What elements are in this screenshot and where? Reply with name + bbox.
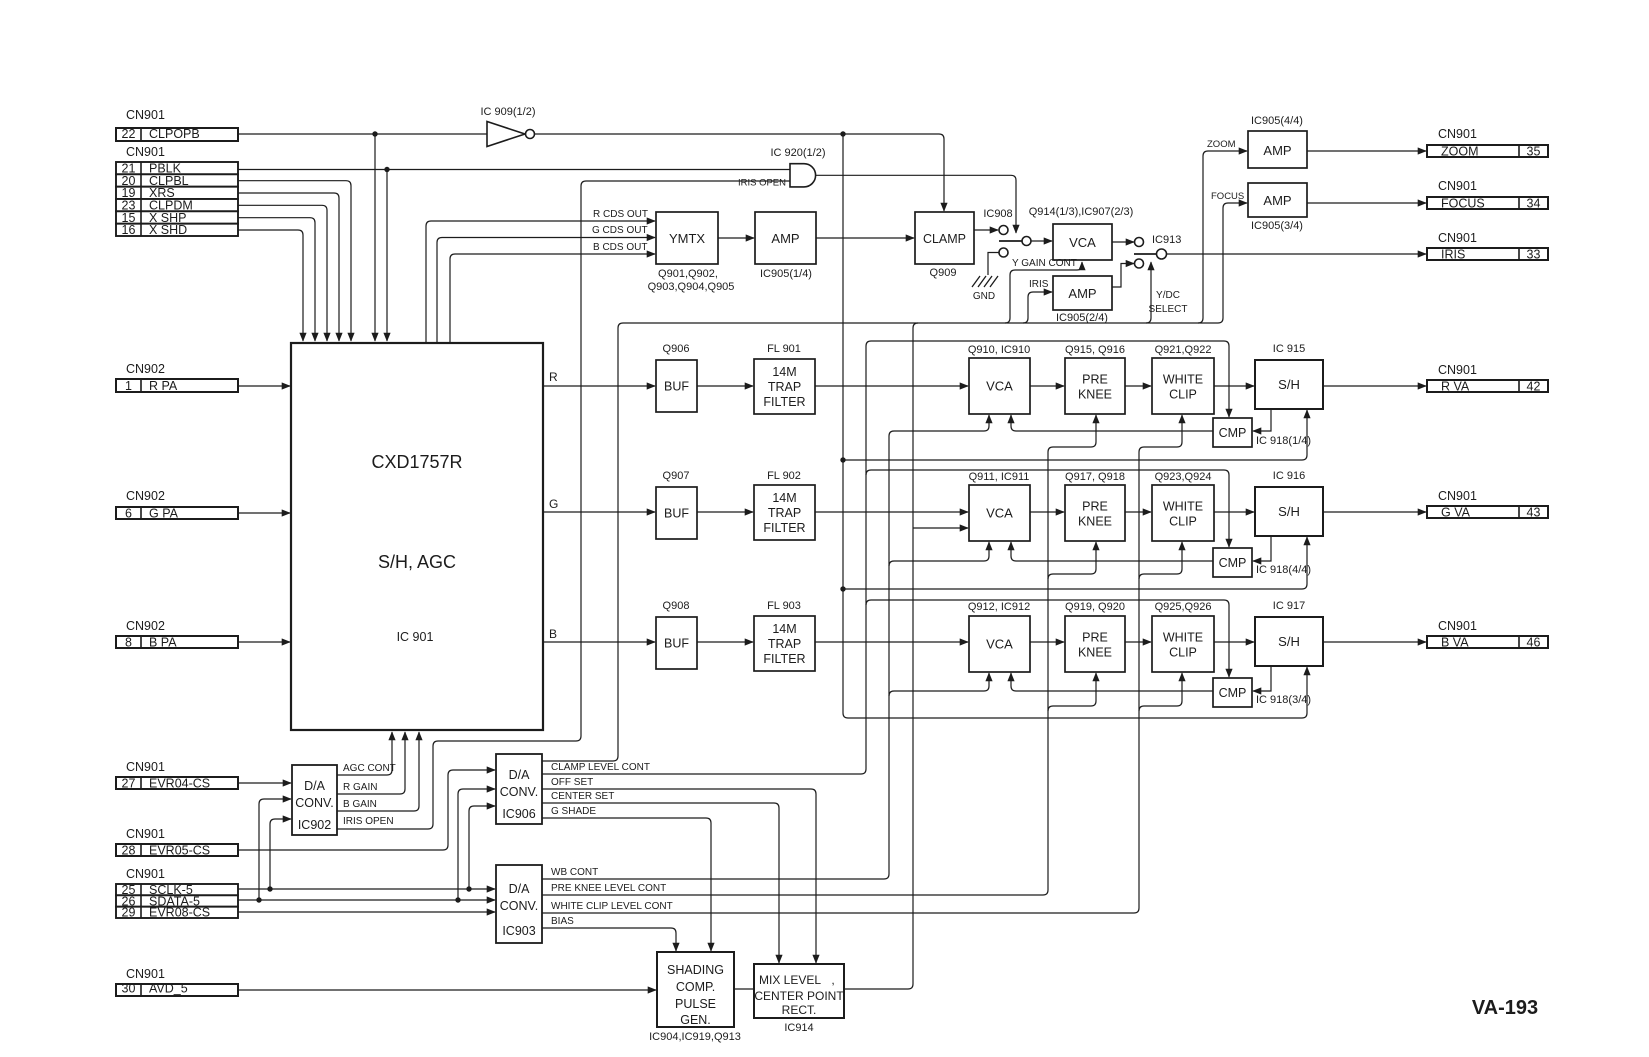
svg-text:D/A: D/A xyxy=(509,768,531,782)
wire IRIS OPEN to AND gate xyxy=(337,181,790,829)
svg-text:B GAIN: B GAIN xyxy=(343,799,377,810)
svg-text:AMP: AMP xyxy=(771,231,799,246)
svg-text:VCA: VCA xyxy=(986,379,1013,394)
junction SDATA tap for IC906 xyxy=(455,897,460,902)
svg-text:Q906: Q906 xyxy=(663,343,690,355)
block WHITE CLIP Q925,Q926 (B row) xyxy=(1152,616,1214,672)
svg-text:FL 902: FL 902 xyxy=(767,470,801,482)
block SHADING COMP. PULSE GEN. IC904,IC919,Q913 xyxy=(657,952,734,1027)
svg-text:G: G xyxy=(549,497,558,511)
wire CLPOPB rail to S/H (G) xyxy=(843,537,1307,589)
wire CN902 G PA into IC901 xyxy=(238,512,290,514)
svg-text:Q919, Q920: Q919, Q920 xyxy=(1065,601,1125,613)
svg-text:CLAMP LEVEL CONT: CLAMP LEVEL CONT xyxy=(551,762,650,773)
svg-text:SHADING: SHADING xyxy=(667,963,724,977)
wire IRIS net from IC906 up-right to AMP riser xyxy=(542,203,1247,761)
svg-text:AMP: AMP xyxy=(1263,193,1291,208)
svg-text:BIAS: BIAS xyxy=(551,916,574,927)
VCA U914/U907 (Y) xyxy=(1053,224,1112,260)
svg-text:GEN.: GEN. xyxy=(680,1013,711,1027)
svg-text:CONV.: CONV. xyxy=(500,785,538,799)
junction SDATA tap for IC902 xyxy=(256,897,261,902)
wire IC901 B out to BUF xyxy=(543,641,655,643)
svg-text:WHITE: WHITE xyxy=(1163,631,1203,645)
IC U901 CXD1757R S/H AGC main block xyxy=(291,343,543,730)
svg-text:Q903,Q904,Q905: Q903,Q904,Q905 xyxy=(648,281,735,293)
svg-text:R VA: R VA xyxy=(1441,379,1470,393)
wire CMP output to VCA (B) xyxy=(1011,673,1213,691)
svg-text:G SHADE: G SHADE xyxy=(551,806,596,817)
svg-text:CN901: CN901 xyxy=(1438,489,1477,503)
comparator CMP IC 918(1/4) (R row) xyxy=(1213,418,1252,447)
svg-text:TRAP: TRAP xyxy=(768,380,801,394)
wire AMP IC905(2/4) out to IC913 throw2 xyxy=(1112,264,1134,288)
svg-text:28: 28 xyxy=(122,843,136,857)
wire PRE KNEE LEVEL CONT branch (G) xyxy=(1048,542,1096,579)
svg-text:27: 27 xyxy=(122,776,136,790)
svg-text:IC 917: IC 917 xyxy=(1273,600,1305,612)
svg-text:KNEE: KNEE xyxy=(1078,388,1112,402)
wire WB CONT riser xyxy=(542,436,889,879)
svg-text:IC 918(3/4): IC 918(3/4) xyxy=(1256,694,1311,706)
wire SCLK branch into IC906 xyxy=(469,806,495,889)
svg-text:S/H: S/H xyxy=(1278,634,1300,649)
svg-text:VCA: VCA xyxy=(986,637,1013,652)
connector CN901 pins 25,26,29 box xyxy=(116,884,238,895)
wire WB CONT branch to VCA (B) xyxy=(889,673,989,696)
svg-text:CONV.: CONV. xyxy=(500,899,538,913)
svg-text:CN902: CN902 xyxy=(126,489,165,503)
svg-text:14M: 14M xyxy=(772,491,796,505)
svg-text:IC903: IC903 xyxy=(502,924,535,938)
svg-text:FL 901: FL 901 xyxy=(767,343,801,355)
wire CENTER SET into MIX block xyxy=(542,803,779,963)
wire inverter out to CLAMP top xyxy=(535,134,945,211)
wire AVD_5 into SHADING block xyxy=(238,989,656,991)
svg-text:CMP: CMP xyxy=(1219,426,1247,440)
svg-text:CN901: CN901 xyxy=(126,145,165,159)
DAC U906 D/A CONV. IC906 xyxy=(496,754,542,824)
svg-text:IC 901: IC 901 xyxy=(397,630,434,644)
svg-text:14M: 14M xyxy=(772,365,796,379)
svg-text:S/H: S/H xyxy=(1278,377,1300,392)
wire SDATA-5 into IC903 xyxy=(238,899,495,901)
wire WHITE CLIP LEVEL CONT branch (R) xyxy=(1139,415,1182,452)
svg-text:CN901: CN901 xyxy=(1438,127,1477,141)
svg-text:IC908: IC908 xyxy=(983,208,1012,220)
amplifier U905b AMP IC905(2/4) xyxy=(1053,276,1112,310)
svg-text:Q908: Q908 xyxy=(663,600,690,612)
wire VCA to IC913 throw1 xyxy=(1112,241,1134,243)
svg-text:FL 903: FL 903 xyxy=(767,600,801,612)
wire CLAMP LEVEL CONT to CMP top (R) xyxy=(866,341,1229,417)
VCA Q910, IC910 (R row) xyxy=(969,358,1030,414)
wire Y GAIN CONT riser into VCA xyxy=(1005,262,1082,323)
connector CN901 pin 35 ZOOM box xyxy=(1427,145,1548,157)
svg-text:CN901: CN901 xyxy=(1438,619,1477,633)
wire WB CONT branch to VCA (R) xyxy=(889,415,989,436)
wire EVR04-CS into IC902 xyxy=(238,782,291,784)
svg-text:FOCUS: FOCUS xyxy=(1441,196,1485,210)
svg-text:AMP: AMP xyxy=(1263,143,1291,158)
svg-text:D/A: D/A xyxy=(509,882,531,896)
svg-text:KNEE: KNEE xyxy=(1078,646,1112,660)
svg-text:WHITE: WHITE xyxy=(1163,500,1203,514)
svg-text:ZOOM: ZOOM xyxy=(1441,144,1479,158)
svg-text:CN902: CN902 xyxy=(126,362,165,376)
wire CLPOPB rail to S/H (R) xyxy=(843,410,1307,460)
connector CN901 pin 42 R VA box xyxy=(1427,380,1548,392)
wire MIX LEVEL output rail xyxy=(844,323,918,989)
svg-text:PULSE: PULSE xyxy=(675,997,716,1011)
svg-text:22: 22 xyxy=(122,127,136,141)
filter FL 902 14M trap filter (G row) xyxy=(754,485,815,540)
svg-text:IC 916: IC 916 xyxy=(1273,470,1305,482)
svg-text:Q923,Q924: Q923,Q924 xyxy=(1155,471,1212,483)
wire CLAMP LEVEL CONT to CMP top (G) xyxy=(866,470,1229,547)
svg-text:IC 915: IC 915 xyxy=(1273,343,1305,355)
svg-text:PRE KNEE LEVEL CONT: PRE KNEE LEVEL CONT xyxy=(551,883,666,894)
wire WB CONT branch to VCA (G) xyxy=(889,542,989,566)
buffer Q907 BUF (G row) xyxy=(656,487,697,539)
svg-text:G VA: G VA xyxy=(1441,505,1471,519)
wire CLAMP LEVEL CONT riser xyxy=(542,346,866,774)
svg-text:R: R xyxy=(549,370,558,384)
svg-text:BUF: BUF xyxy=(664,637,689,651)
wire EVR05-CS into IC906 xyxy=(238,770,495,850)
block PRE KNEE Q915, Q916 (R row) xyxy=(1065,358,1125,414)
svg-text:CN901: CN901 xyxy=(126,108,165,122)
block S/H IC 916 (G row) xyxy=(1255,487,1323,536)
wire IRIS riser into AMP IC905(2/4) xyxy=(1023,292,1052,323)
connector CN901 pin 46 B VA box xyxy=(1427,636,1548,648)
svg-text:MIX LEVEL: MIX LEVEL xyxy=(759,973,821,987)
svg-text:CN901: CN901 xyxy=(126,867,165,881)
svg-text:COMP.: COMP. xyxy=(676,980,715,994)
junction SCLK tap for IC906 xyxy=(466,886,471,891)
connector CN901 pin 34 FOCUS box xyxy=(1427,197,1548,209)
wire S/H to CN901 B VA out xyxy=(1323,641,1426,643)
wire trap filter to VCA (R) xyxy=(815,385,968,387)
wire OFF SET into MIX block xyxy=(542,789,816,963)
svg-text:R GAIN: R GAIN xyxy=(343,782,377,793)
DAC U902 D/A CONV. IC902 xyxy=(292,765,337,835)
svg-text:R PA: R PA xyxy=(149,379,178,393)
wire PRE KNEE to WHITE CLIP (G) xyxy=(1125,511,1151,513)
wire PRE KNEE to WHITE CLIP (B) xyxy=(1125,641,1151,643)
svg-text:CN902: CN902 xyxy=(126,619,165,633)
svg-text:IRIS OPEN: IRIS OPEN xyxy=(738,178,786,189)
ground GND symbol xyxy=(972,276,998,287)
wire CMP output to VCA (R) xyxy=(1011,415,1213,431)
svg-text:IRIS OPEN: IRIS OPEN xyxy=(343,816,394,827)
block PRE KNEE Q919, Q920 (B row) xyxy=(1065,616,1125,672)
svg-text:IC905(2/4): IC905(2/4) xyxy=(1056,312,1108,324)
wire S/H feedback to CMP (B) xyxy=(1253,666,1271,691)
svg-text:CN901: CN901 xyxy=(1438,179,1477,193)
svg-text:29: 29 xyxy=(122,906,136,920)
wire CLAMP out to IC908 throw1 xyxy=(974,229,998,231)
connector CN902 pin 8 B PA box xyxy=(116,636,238,648)
svg-text:1: 1 xyxy=(125,379,132,393)
svg-text:TRAP: TRAP xyxy=(768,506,801,520)
svg-text:35: 35 xyxy=(1527,144,1541,158)
block MIX LEVEL CENTER POINT RECT. IC914 xyxy=(754,964,844,1018)
svg-text:FILTER: FILTER xyxy=(763,652,805,666)
wire SDATA branch into IC902 xyxy=(259,799,291,900)
block CLAMP Q909 xyxy=(915,212,974,264)
wire S/H to CN901 R VA out xyxy=(1323,385,1426,387)
junction CLPOPB rail (G) xyxy=(840,586,845,591)
wire VCA to PRE KNEE (B) xyxy=(1030,641,1064,643)
svg-text:IC905(4/4): IC905(4/4) xyxy=(1251,115,1303,127)
wire AGC CONT into IC901 xyxy=(337,732,392,775)
svg-text:42: 42 xyxy=(1527,379,1541,393)
svg-text:FOCUS: FOCUS xyxy=(1211,191,1244,202)
svg-text:OFF SET: OFF SET xyxy=(551,777,593,788)
wire B CDS OUT to YMTX xyxy=(450,254,655,343)
svg-text:IC905(3/4): IC905(3/4) xyxy=(1251,220,1303,232)
svg-text:RECT.: RECT. xyxy=(782,1003,817,1017)
svg-text:IC902: IC902 xyxy=(298,818,331,832)
wire PBLK drop into IC901 xyxy=(386,170,388,342)
svg-text:IC904,IC919,Q913: IC904,IC919,Q913 xyxy=(649,1031,741,1043)
junction PBLK drop xyxy=(384,167,389,172)
connector CN902 pin 6 G PA box xyxy=(116,507,238,519)
wire AMP focus to CN901 FOCUS xyxy=(1307,202,1426,204)
connector CN901 pin 30 AVD_5 box xyxy=(116,984,238,996)
svg-text:YMTX: YMTX xyxy=(669,231,705,246)
svg-text:CN901: CN901 xyxy=(1438,231,1477,245)
svg-text:FILTER: FILTER xyxy=(763,395,805,409)
block YMTX Q901-Q905 xyxy=(656,212,718,264)
svg-text:IC 918(1/4): IC 918(1/4) xyxy=(1256,435,1311,447)
wire WHITE CLIP to S/H (G) xyxy=(1214,511,1254,513)
svg-text:IC 918(4/4): IC 918(4/4) xyxy=(1256,564,1311,576)
svg-text:Y GAIN CONT: Y GAIN CONT xyxy=(1012,258,1077,269)
svg-text:34: 34 xyxy=(1527,196,1541,210)
connector CN901 pin 33 IRIS box xyxy=(1427,248,1548,260)
wire S/H to CN901 G VA out xyxy=(1323,511,1426,513)
svg-text:AVD_5: AVD_5 xyxy=(149,982,188,996)
junction SCLK tap for IC902 xyxy=(267,886,272,891)
block WHITE CLIP Q921,Q922 (R row) xyxy=(1152,358,1214,414)
wire CLAMP LEVEL CONT to CMP top (B) xyxy=(866,600,1229,677)
svg-text:Q915, Q916: Q915, Q916 xyxy=(1065,344,1125,356)
svg-text:33: 33 xyxy=(1527,247,1541,261)
comparator CMP IC 918(4/4) (G row) xyxy=(1213,548,1252,577)
svg-text:46: 46 xyxy=(1527,635,1541,649)
svg-text:6: 6 xyxy=(125,506,132,520)
svg-text:CLAMP: CLAMP xyxy=(923,232,966,246)
block S/H IC 915 (R row) xyxy=(1255,360,1323,409)
wire XRS into IC901 xyxy=(238,193,339,341)
junction CLPOPB rail (R) xyxy=(840,457,845,462)
wire CN902 B PA into IC901 xyxy=(238,641,290,643)
svg-text:EVR05-CS: EVR05-CS xyxy=(149,843,210,857)
svg-text:BUF: BUF xyxy=(664,380,689,394)
wire BUF to 14M trap (B) xyxy=(697,641,753,643)
wire EVR08-CS into IC903 xyxy=(238,911,495,913)
svg-text:G PA: G PA xyxy=(149,506,179,520)
wire IC908 throw2 to ground xyxy=(988,253,999,276)
svg-text:B PA: B PA xyxy=(149,635,177,649)
svg-text:CMP: CMP xyxy=(1219,556,1247,570)
wire B GAIN into IC901 xyxy=(337,732,419,811)
filter FL 901 14M trap filter (R row) xyxy=(754,359,815,414)
svg-text:EVR04-CS: EVR04-CS xyxy=(149,776,210,790)
wire WHITE CLIP LEVEL CONT branch (G) xyxy=(1139,542,1182,579)
connector CN901 pin 43 G VA box xyxy=(1427,506,1548,518)
connector CN902 pin 1 R PA box xyxy=(116,379,238,392)
svg-text:14M: 14M xyxy=(772,622,796,636)
wire CLPDM into IC901 xyxy=(238,205,327,341)
wire CLPOPB from CN901 to inverter xyxy=(238,133,487,135)
svg-text:CN901: CN901 xyxy=(1438,363,1477,377)
wire BUF to 14M trap (R) xyxy=(697,385,753,387)
junction CLPOPB drop xyxy=(372,131,377,136)
svg-text:Q912, IC912: Q912, IC912 xyxy=(968,601,1030,613)
wire SCLK branch into IC902 xyxy=(270,819,291,889)
wire WHITE CLIP LEVEL CONT riser xyxy=(542,452,1139,913)
AND gate U920 IC 920(1/2) xyxy=(790,164,816,187)
svg-text:SELECT: SELECT xyxy=(1149,304,1188,315)
svg-text:Q921,Q922: Q921,Q922 xyxy=(1155,344,1212,356)
DAC U903 D/A CONV. IC903 xyxy=(496,865,542,943)
wire Y/DC SELECT riser xyxy=(1146,262,1151,323)
svg-text:CLPOPB: CLPOPB xyxy=(149,127,200,141)
svg-text:B VA: B VA xyxy=(1441,635,1469,649)
svg-text:GND: GND xyxy=(973,291,995,302)
svg-text:AGC CONT: AGC CONT xyxy=(343,763,396,774)
wire G SHADE into SHADING block xyxy=(542,818,711,951)
filter FL 903 14M trap filter (B row) xyxy=(754,616,815,671)
svg-text:IC914: IC914 xyxy=(784,1022,813,1034)
wire PBLK to AND gate xyxy=(238,169,790,171)
wire S/H feedback to CMP (G) xyxy=(1253,536,1271,561)
svg-text:CN901: CN901 xyxy=(126,760,165,774)
wire IC901 R out to BUF xyxy=(543,385,655,387)
wire X SHP into IC901 xyxy=(238,218,315,341)
block S/H IC 917 (B row) xyxy=(1255,617,1323,666)
block WHITE CLIP Q923,Q924 (G row) xyxy=(1152,485,1214,541)
svg-text:CENTER SET: CENTER SET xyxy=(551,791,614,802)
svg-text:Q901,Q902,: Q901,Q902, xyxy=(658,268,718,280)
svg-text:D/A: D/A xyxy=(304,779,326,793)
wire SCLK-5 into IC903 xyxy=(238,888,495,890)
svg-text:S/H: S/H xyxy=(1278,504,1300,519)
wire CLPOPB vertical rail xyxy=(842,134,844,713)
svg-text:KNEE: KNEE xyxy=(1078,515,1112,529)
wire YMTX to AMP xyxy=(718,237,754,239)
wire CLPOPB drop into IC901 xyxy=(374,134,376,341)
wire CLPOPB rail corner to S/H (B) xyxy=(843,667,1307,718)
wire trap filter to VCA (G) xyxy=(815,511,968,513)
wire VCA to PRE KNEE (G) xyxy=(1030,511,1064,513)
svg-text:CN901: CN901 xyxy=(126,827,165,841)
svg-text:FILTER: FILTER xyxy=(763,521,805,535)
svg-text:X SHD: X SHD xyxy=(149,223,187,237)
buffer Q908 BUF (B row) xyxy=(656,617,697,669)
wire WHITE CLIP LEVEL CONT branch (B) xyxy=(1139,673,1182,711)
svg-text:16: 16 xyxy=(122,223,136,237)
svg-text:Y/DC: Y/DC xyxy=(1156,290,1180,301)
svg-text:ZOOM: ZOOM xyxy=(1207,139,1236,150)
svg-text:PRE: PRE xyxy=(1082,373,1108,387)
wire BIAS into SHADING block xyxy=(542,928,676,951)
inverter U909 IC 909(1/2) xyxy=(487,122,525,147)
svg-text:AMP: AMP xyxy=(1068,286,1096,301)
svg-text:Q907: Q907 xyxy=(663,470,690,482)
svg-text:CXD1757R: CXD1757R xyxy=(371,452,462,472)
wire CN902 R PA into IC901 xyxy=(238,385,290,387)
svg-text:S/H, AGC: S/H, AGC xyxy=(378,552,456,572)
wire S/H feedback to CMP (R) xyxy=(1253,409,1271,431)
svg-text:IC 909(1/2): IC 909(1/2) xyxy=(480,106,535,118)
svg-text:BUF: BUF xyxy=(664,507,689,521)
svg-text:CN901: CN901 xyxy=(126,967,165,981)
wire AMP zoom to CN901 ZOOM xyxy=(1307,150,1426,152)
svg-text:CLIP: CLIP xyxy=(1169,646,1197,660)
svg-text:Q911, IC911: Q911, IC911 xyxy=(969,471,1030,483)
connector CN901 pin 27 EVR04-CS box xyxy=(116,777,238,789)
svg-text:30: 30 xyxy=(122,982,136,996)
wire trap filter to VCA (B) xyxy=(815,641,968,643)
svg-text:Q914(1/3),IC907(2/3): Q914(1/3),IC907(2/3) xyxy=(1029,206,1134,218)
VCA Q912, IC912 (B row) xyxy=(969,616,1030,672)
wire G CDS OUT to YMTX xyxy=(437,238,655,344)
buffer Q906 BUF (R row) xyxy=(656,360,697,412)
svg-text:,: , xyxy=(831,973,834,987)
connector CN901 pins 21,20,19,23,15,16 box xyxy=(116,162,238,174)
comparator CMP IC 918(3/4) (B row) xyxy=(1213,678,1252,707)
svg-text:B CDS OUT: B CDS OUT xyxy=(593,242,647,253)
svg-text:IC906: IC906 xyxy=(502,807,535,821)
svg-text:CMP: CMP xyxy=(1219,686,1247,700)
wire PRE KNEE LEVEL CONT branch (R) xyxy=(1048,415,1096,452)
wire VCA to PRE KNEE (R) xyxy=(1030,385,1064,387)
svg-text:G CDS OUT: G CDS OUT xyxy=(592,225,648,236)
wire PRE KNEE to WHITE CLIP (R) xyxy=(1125,385,1151,387)
svg-text:IC 920(1/2): IC 920(1/2) xyxy=(770,147,825,159)
svg-text:TRAP: TRAP xyxy=(768,637,801,651)
svg-text:VCA: VCA xyxy=(986,506,1013,521)
svg-text:VA-193: VA-193 xyxy=(1472,997,1538,1019)
wire MIX LEVEL rail branch to VCA (G) xyxy=(913,527,968,529)
wire CLPBL into IC901 xyxy=(238,181,351,341)
svg-text:IRIS: IRIS xyxy=(1029,279,1049,290)
wire IC901 G out to BUF xyxy=(543,511,655,513)
svg-text:PRE: PRE xyxy=(1082,631,1108,645)
svg-text:Q925,Q926: Q925,Q926 xyxy=(1155,601,1212,613)
junction CLPOPB rail tap xyxy=(840,131,845,136)
amplifier U905d AMP IC905(4/4) zoom xyxy=(1248,131,1307,168)
svg-text:CLIP: CLIP xyxy=(1169,388,1197,402)
svg-text:43: 43 xyxy=(1527,505,1541,519)
svg-text:WHITE: WHITE xyxy=(1163,373,1203,387)
svg-text:IRIS: IRIS xyxy=(1441,247,1465,261)
svg-text:IC913: IC913 xyxy=(1152,234,1181,246)
svg-text:CLIP: CLIP xyxy=(1169,515,1197,529)
wire PRE KNEE LEVEL CONT riser xyxy=(542,452,1048,895)
wire R CDS OUT to YMTX xyxy=(426,221,655,343)
wire BUF to 14M trap (G) xyxy=(697,511,753,513)
svg-text:WB CONT: WB CONT xyxy=(551,867,598,878)
wire PRE KNEE LEVEL CONT branch (B) xyxy=(1048,673,1096,711)
wire WHITE CLIP to S/H (B) xyxy=(1214,641,1254,643)
amplifier U905c AMP IC905(3/4) focus xyxy=(1248,183,1307,217)
svg-text:Q917, Q918: Q917, Q918 xyxy=(1065,471,1125,483)
